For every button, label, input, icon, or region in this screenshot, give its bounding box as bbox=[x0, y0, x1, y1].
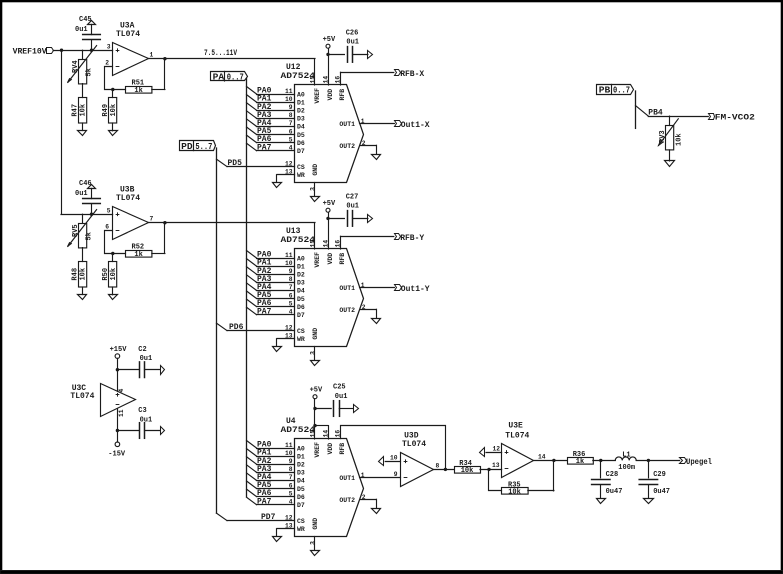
svg-text:0u1: 0u1 bbox=[140, 355, 153, 363]
svg-text:13: 13 bbox=[285, 169, 293, 176]
svg-text:5: 5 bbox=[289, 136, 293, 143]
svg-text:2: 2 bbox=[105, 59, 109, 66]
svg-text:C45: C45 bbox=[79, 16, 92, 24]
svg-text:PD: PD bbox=[181, 142, 193, 152]
svg-text:5k: 5k bbox=[85, 232, 93, 240]
svg-text:RFB: RFB bbox=[339, 89, 346, 101]
svg-text:D6: D6 bbox=[297, 304, 305, 311]
svg-text:Out1-X: Out1-X bbox=[401, 121, 430, 130]
svg-text:10: 10 bbox=[285, 260, 293, 267]
svg-text:8: 8 bbox=[289, 276, 293, 283]
svg-text:12: 12 bbox=[285, 514, 293, 521]
svg-text:D5: D5 bbox=[297, 486, 305, 493]
svg-text:9: 9 bbox=[289, 458, 293, 465]
svg-text:D5: D5 bbox=[297, 296, 305, 303]
svg-text:14: 14 bbox=[538, 454, 546, 461]
svg-text:D2: D2 bbox=[297, 108, 305, 115]
svg-text:0u1: 0u1 bbox=[75, 190, 88, 198]
svg-text:C2: C2 bbox=[138, 346, 146, 354]
svg-text:0u1: 0u1 bbox=[346, 39, 359, 47]
svg-text:100m: 100m bbox=[618, 464, 635, 472]
svg-text:D7: D7 bbox=[297, 148, 305, 155]
svg-text:2: 2 bbox=[362, 304, 366, 311]
svg-text:4: 4 bbox=[289, 145, 293, 152]
svg-text:1: 1 bbox=[361, 282, 365, 289]
svg-text:10: 10 bbox=[390, 455, 398, 462]
svg-text:7: 7 bbox=[289, 284, 293, 291]
svg-text:2: 2 bbox=[362, 140, 366, 147]
svg-text:D4: D4 bbox=[297, 288, 305, 295]
svg-text:D1: D1 bbox=[297, 453, 305, 460]
svg-text:PD7: PD7 bbox=[261, 513, 276, 522]
svg-text:RV4: RV4 bbox=[72, 60, 80, 73]
svg-text:VREF: VREF bbox=[314, 88, 321, 104]
svg-text:WR: WR bbox=[297, 526, 305, 533]
svg-text:0u1: 0u1 bbox=[346, 203, 359, 211]
svg-text:9: 9 bbox=[289, 104, 293, 111]
svg-text:VDD: VDD bbox=[327, 443, 334, 455]
svg-text:CS: CS bbox=[297, 164, 305, 171]
svg-text:2: 2 bbox=[362, 494, 366, 501]
svg-text:4: 4 bbox=[118, 389, 125, 393]
svg-text:7.5...11V: 7.5...11V bbox=[204, 49, 237, 58]
svg-text:0u1: 0u1 bbox=[75, 26, 88, 34]
svg-text:5: 5 bbox=[289, 490, 293, 497]
svg-text:OUT2: OUT2 bbox=[339, 307, 355, 314]
svg-text:U13: U13 bbox=[286, 227, 301, 236]
svg-text:U3E: U3E bbox=[508, 421, 523, 430]
svg-text:10: 10 bbox=[285, 450, 293, 457]
svg-text:C27: C27 bbox=[346, 193, 359, 201]
svg-text:1k: 1k bbox=[576, 458, 584, 466]
svg-text:14: 14 bbox=[323, 240, 330, 248]
svg-text:10k: 10k bbox=[675, 133, 683, 146]
svg-text:12: 12 bbox=[285, 324, 293, 331]
svg-text:GND: GND bbox=[312, 518, 319, 530]
svg-text:5k: 5k bbox=[85, 68, 93, 76]
svg-text:6: 6 bbox=[289, 292, 293, 299]
svg-text:A0: A0 bbox=[297, 91, 305, 98]
svg-text:+5V: +5V bbox=[323, 36, 336, 44]
svg-text:D2: D2 bbox=[297, 462, 305, 469]
svg-text:AD7524: AD7524 bbox=[281, 236, 316, 245]
svg-text:Out1-Y: Out1-Y bbox=[401, 285, 430, 294]
svg-text:WR: WR bbox=[297, 336, 305, 343]
svg-text:CS: CS bbox=[297, 328, 305, 335]
svg-text:PD5: PD5 bbox=[228, 159, 243, 168]
svg-text:10: 10 bbox=[285, 96, 293, 103]
svg-text:TL074: TL074 bbox=[505, 432, 529, 441]
svg-text:RV5: RV5 bbox=[72, 224, 80, 237]
svg-text:TL074: TL074 bbox=[116, 30, 140, 39]
svg-text:1k: 1k bbox=[134, 87, 142, 95]
svg-text:5: 5 bbox=[107, 207, 111, 214]
svg-text:11: 11 bbox=[285, 442, 293, 449]
svg-text:GND: GND bbox=[312, 164, 319, 176]
svg-text:5..7: 5..7 bbox=[195, 142, 212, 152]
svg-text:PA7: PA7 bbox=[257, 307, 272, 316]
svg-text:D5: D5 bbox=[297, 132, 305, 139]
svg-text:7: 7 bbox=[289, 120, 293, 127]
svg-text:14: 14 bbox=[323, 430, 330, 438]
svg-text:D3: D3 bbox=[297, 470, 305, 477]
svg-text:+5V: +5V bbox=[310, 387, 323, 395]
svg-text:C25: C25 bbox=[333, 384, 346, 392]
svg-text:8: 8 bbox=[289, 112, 293, 119]
svg-text:D6: D6 bbox=[297, 494, 305, 501]
svg-text:RFB: RFB bbox=[339, 253, 346, 265]
svg-text:WR: WR bbox=[297, 172, 305, 179]
svg-text:10k: 10k bbox=[110, 268, 118, 281]
svg-text:16: 16 bbox=[335, 76, 342, 84]
svg-text:13: 13 bbox=[492, 462, 500, 469]
svg-text:TL074: TL074 bbox=[70, 392, 94, 401]
svg-text:8: 8 bbox=[289, 466, 293, 473]
svg-text:FM-VCO2: FM-VCO2 bbox=[715, 114, 755, 123]
svg-text:4: 4 bbox=[289, 309, 293, 316]
svg-text:10k: 10k bbox=[461, 467, 474, 475]
svg-text:PA7: PA7 bbox=[257, 143, 272, 152]
svg-text:13: 13 bbox=[285, 523, 293, 530]
svg-text:10k: 10k bbox=[110, 104, 118, 117]
svg-text:1: 1 bbox=[150, 52, 154, 59]
svg-text:C26: C26 bbox=[346, 29, 359, 37]
svg-text:3: 3 bbox=[310, 541, 317, 545]
svg-text:PA7: PA7 bbox=[257, 497, 272, 506]
svg-text:11: 11 bbox=[118, 409, 125, 417]
svg-text:3: 3 bbox=[310, 187, 317, 191]
svg-text:14: 14 bbox=[323, 76, 330, 84]
svg-text:RFB: RFB bbox=[339, 443, 346, 455]
svg-text:Upegel: Upegel bbox=[686, 458, 712, 467]
svg-text:D4: D4 bbox=[297, 478, 305, 485]
svg-text:+15V: +15V bbox=[110, 346, 128, 354]
svg-text:D6: D6 bbox=[297, 140, 305, 147]
svg-text:VREF: VREF bbox=[314, 442, 321, 458]
svg-text:6: 6 bbox=[289, 482, 293, 489]
svg-text:TL074: TL074 bbox=[402, 440, 426, 449]
svg-text:6: 6 bbox=[105, 223, 109, 230]
svg-text:8: 8 bbox=[436, 463, 440, 470]
svg-text:C46: C46 bbox=[79, 180, 92, 188]
svg-text:1k: 1k bbox=[134, 251, 142, 259]
svg-text:AD7524: AD7524 bbox=[281, 72, 316, 81]
svg-text:RFB-X: RFB-X bbox=[400, 70, 424, 79]
svg-text:10k: 10k bbox=[79, 104, 87, 117]
svg-text:PB: PB bbox=[599, 86, 611, 96]
svg-text:C29: C29 bbox=[653, 471, 666, 479]
svg-text:RFB-Y: RFB-Y bbox=[400, 234, 424, 243]
svg-text:1: 1 bbox=[361, 118, 365, 125]
svg-text:6: 6 bbox=[289, 128, 293, 135]
svg-text:13: 13 bbox=[285, 333, 293, 340]
svg-text:16: 16 bbox=[335, 240, 342, 248]
svg-text:OUT2: OUT2 bbox=[339, 497, 355, 504]
svg-text:VDD: VDD bbox=[327, 253, 334, 265]
svg-text:3: 3 bbox=[310, 351, 317, 355]
svg-text:10k: 10k bbox=[508, 489, 521, 497]
svg-text:OUT2: OUT2 bbox=[339, 143, 355, 150]
svg-text:12: 12 bbox=[492, 445, 500, 452]
svg-text:RV3: RV3 bbox=[659, 130, 667, 143]
svg-text:U4: U4 bbox=[286, 417, 296, 426]
svg-text:D2: D2 bbox=[297, 272, 305, 279]
svg-text:11: 11 bbox=[285, 252, 293, 259]
svg-text:+5V: +5V bbox=[323, 200, 336, 208]
svg-text:VDD: VDD bbox=[327, 89, 334, 101]
svg-text:VREF: VREF bbox=[314, 252, 321, 268]
svg-text:A0: A0 bbox=[297, 445, 305, 452]
svg-text:0..7: 0..7 bbox=[613, 86, 630, 96]
svg-text:L1: L1 bbox=[622, 451, 630, 459]
svg-text:D3: D3 bbox=[297, 116, 305, 123]
svg-text:0..7: 0..7 bbox=[227, 73, 244, 83]
svg-text:PB4: PB4 bbox=[648, 108, 663, 117]
svg-text:7: 7 bbox=[289, 474, 293, 481]
svg-text:AD7524: AD7524 bbox=[281, 426, 316, 435]
svg-text:12: 12 bbox=[285, 160, 293, 167]
svg-text:5: 5 bbox=[289, 300, 293, 307]
svg-text:D4: D4 bbox=[297, 124, 305, 131]
svg-text:U12: U12 bbox=[286, 63, 301, 72]
svg-text:D1: D1 bbox=[297, 99, 305, 106]
svg-text:PA: PA bbox=[213, 73, 225, 83]
svg-text:9: 9 bbox=[289, 268, 293, 275]
svg-text:10k: 10k bbox=[79, 268, 87, 281]
svg-text:VREF10V: VREF10V bbox=[13, 47, 47, 56]
svg-text:11: 11 bbox=[285, 88, 293, 95]
svg-text:4: 4 bbox=[289, 499, 293, 506]
svg-text:D3: D3 bbox=[297, 280, 305, 287]
svg-text:9: 9 bbox=[394, 471, 398, 478]
svg-text:1: 1 bbox=[361, 472, 365, 479]
svg-text:3: 3 bbox=[107, 43, 111, 50]
svg-text:0u1: 0u1 bbox=[335, 393, 348, 401]
svg-text:OUT1: OUT1 bbox=[339, 475, 355, 482]
svg-text:OUT1: OUT1 bbox=[339, 121, 355, 128]
svg-text:D7: D7 bbox=[297, 312, 305, 319]
svg-text:GND: GND bbox=[312, 328, 319, 340]
svg-text:TL074: TL074 bbox=[116, 194, 140, 203]
svg-text:0u47: 0u47 bbox=[606, 488, 623, 496]
svg-text:16: 16 bbox=[335, 430, 342, 438]
svg-text:-15V: -15V bbox=[108, 450, 126, 458]
svg-text:0u47: 0u47 bbox=[653, 488, 670, 496]
svg-text:A0: A0 bbox=[297, 255, 305, 262]
svg-text:CS: CS bbox=[297, 518, 305, 525]
svg-text:C28: C28 bbox=[606, 471, 619, 479]
svg-text:C3: C3 bbox=[138, 407, 146, 415]
svg-text:D1: D1 bbox=[297, 263, 305, 270]
svg-text:7: 7 bbox=[150, 216, 154, 223]
svg-text:D7: D7 bbox=[297, 502, 305, 509]
svg-text:PD6: PD6 bbox=[229, 323, 244, 332]
svg-text:0u1: 0u1 bbox=[140, 416, 153, 424]
svg-text:OUT1: OUT1 bbox=[339, 285, 355, 292]
